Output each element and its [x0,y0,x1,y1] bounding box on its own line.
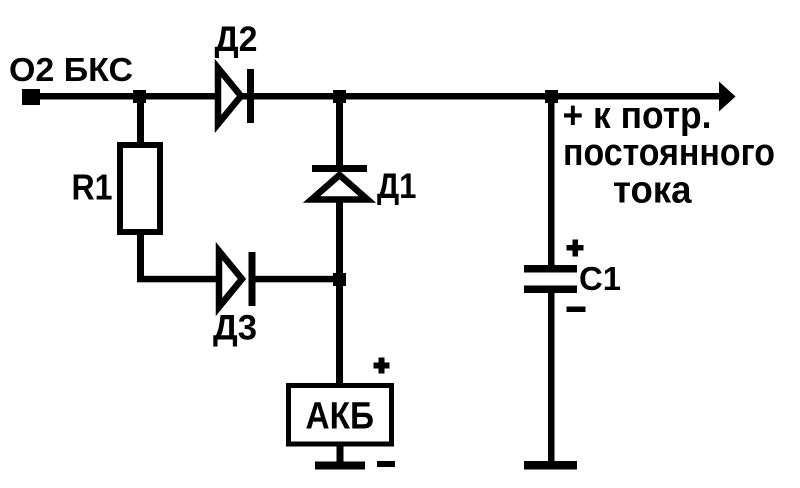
junction node Д1/Д3/АКБ [333,273,346,286]
junction node C1 branch [545,90,558,103]
wire Д1 top lead [336,96,343,166]
svg-text:Д3: Д3 [213,309,257,348]
junction node R1 branch [133,90,146,103]
capacitor C1 [524,265,577,293]
arrow output to load [719,82,736,112]
diode Д3 [219,251,256,307]
wire АКБ negative lead [337,444,344,463]
wire C1 top lead [548,96,555,266]
svg-text:+ к потр.: + к потр. [563,95,712,137]
ground rail АКБ negative [315,462,365,470]
wire node to АКБ [336,199,343,384]
label − C1 negative [567,307,586,313]
svg-text:С1: С1 [579,260,621,297]
wire C1 bottom lead [548,293,555,463]
svg-text:АКБ: АКБ [306,395,375,437]
diode Д2 [218,68,254,124]
battery АКБ box [289,386,392,445]
resistor R1 [120,145,160,232]
terminal О2 БКС input [22,89,40,105]
svg-text:постоянного: постоянного [563,132,775,174]
label + АКБ positive [374,358,390,374]
svg-text:тока: тока [613,170,692,212]
svg-text:R1: R1 [72,167,113,208]
wire R1 bottom lead to Д3 [137,232,217,282]
svg-text:О2 БКС: О2 БКС [9,51,133,88]
diode Д1 [312,165,368,200]
wire main top bus [31,93,720,100]
label + C1 positive [567,240,584,257]
ground rail C1 [524,461,577,470]
svg-text:Д1: Д1 [377,167,417,206]
junction node Д1 top [333,90,346,103]
label − АКБ negative [377,461,395,467]
wire Д3 to node [255,276,339,283]
svg-text:Д2: Д2 [215,20,258,59]
wire R1 top lead [137,96,144,144]
